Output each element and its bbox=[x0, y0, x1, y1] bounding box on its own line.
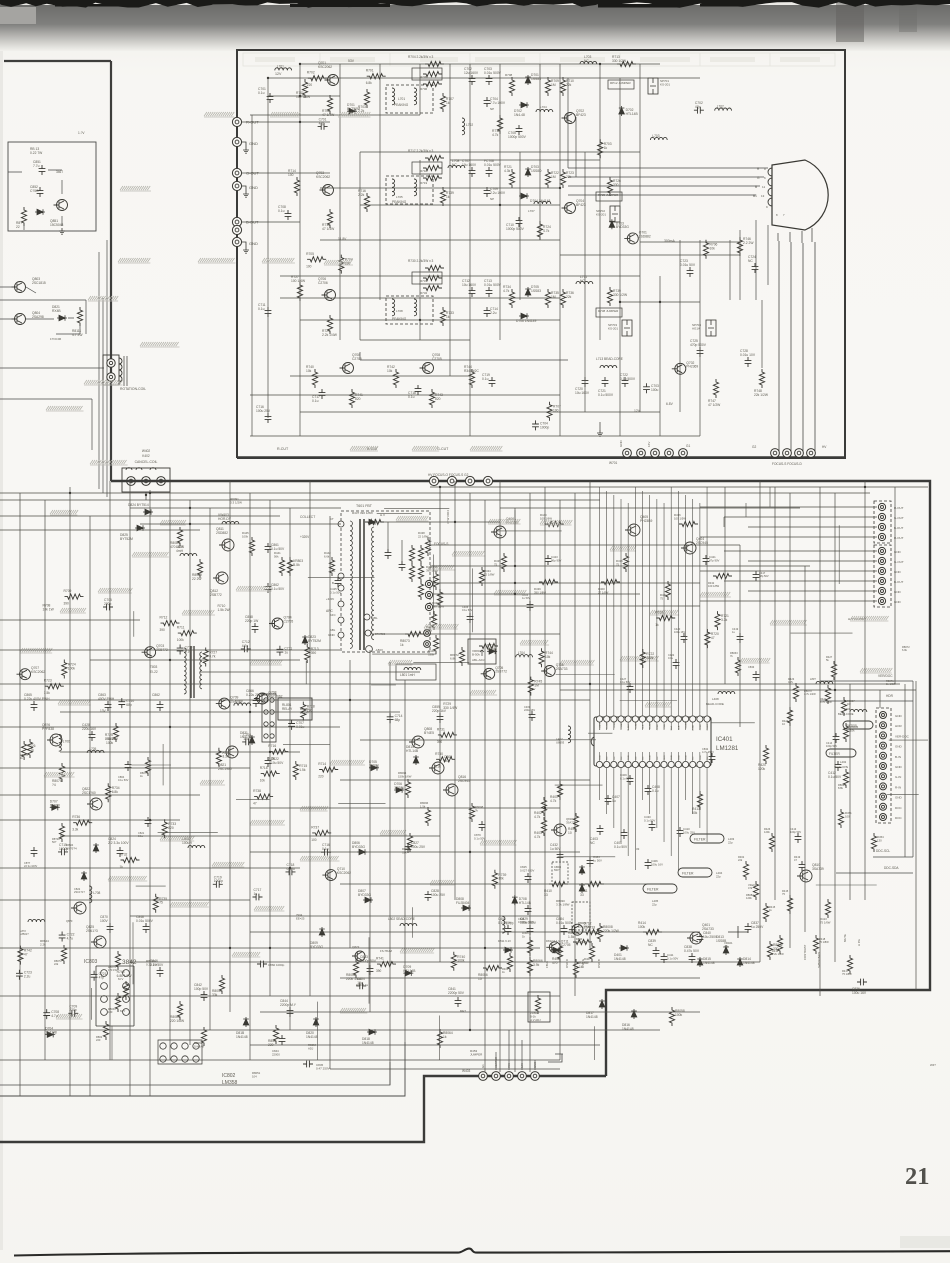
capacitor C710 bbox=[506, 217, 525, 231]
resistor R8042 bbox=[767, 941, 782, 960]
junction bbox=[469, 851, 471, 853]
svg-text:47 1/4W: 47 1/4W bbox=[322, 227, 335, 231]
resistor R744 bbox=[539, 648, 553, 667]
wire bbox=[560, 254, 740, 256]
svg-text:470 1/2W: 470 1/2W bbox=[170, 545, 185, 549]
svg-text:7.7u 100V: 7.7u 100V bbox=[490, 101, 506, 105]
svg-text:ROTATION-COIL: ROTATION-COIL bbox=[120, 387, 146, 391]
transistor Q703 bbox=[142, 644, 168, 658]
capacitor C867 bbox=[24, 847, 38, 868]
hatch mark bbox=[770, 620, 807, 625]
connector TP bbox=[424, 630, 431, 648]
svg-text:21: 21 bbox=[905, 1163, 930, 1190]
capacitor C822 bbox=[265, 757, 284, 767]
wire bbox=[432, 555, 434, 620]
svg-text:B-: B- bbox=[332, 581, 335, 585]
wire bbox=[568, 78, 576, 177]
wire bbox=[656, 499, 658, 716]
svg-text:3.3k: 3.3k bbox=[721, 618, 728, 622]
capacitor C708 bbox=[278, 205, 291, 220]
label OSD R bbox=[565, 959, 569, 968]
svg-text:CLAM: CLAM bbox=[692, 725, 695, 731]
wire bbox=[0, 726, 340, 728]
wire bbox=[290, 375, 470, 377]
svg-text:100k: 100k bbox=[646, 656, 654, 660]
transistor Q811 bbox=[216, 527, 234, 551]
transistor Q803 bbox=[12, 277, 46, 293]
svg-text:HOR: HOR bbox=[895, 724, 903, 728]
capacitor C870 bbox=[100, 915, 113, 933]
capacitor C721 bbox=[91, 971, 107, 981]
label R8030 bbox=[556, 899, 570, 907]
svg-text:1N4148: 1N4148 bbox=[306, 1035, 318, 1039]
label socket pins bbox=[753, 167, 785, 217]
wire bbox=[724, 580, 877, 582]
resistor R8076 bbox=[140, 757, 151, 778]
wire bbox=[250, 435, 700, 437]
transistor Q701 bbox=[318, 61, 339, 86]
wire bbox=[300, 411, 660, 413]
hatch mark bbox=[480, 840, 517, 845]
resistor R8066 bbox=[527, 957, 542, 976]
scan gray band below top edge bbox=[0, 5, 950, 51]
svg-text:0.01u 500V: 0.01u 500V bbox=[484, 283, 502, 287]
transistor Q825 bbox=[86, 925, 106, 948]
label VRa01 bbox=[748, 883, 756, 890]
hatch mark bbox=[160, 520, 186, 525]
svg-text:1M: 1M bbox=[551, 175, 556, 179]
svg-text:CONTRAST: CONTRAST bbox=[803, 944, 807, 960]
svg-text:47p 90V: 47p 90V bbox=[709, 558, 720, 562]
svg-text:RP12 JUMPER: RP12 JUMPER bbox=[610, 81, 632, 85]
hatch mark bbox=[620, 656, 659, 661]
svg-text:22 1/8W: 22 1/8W bbox=[484, 572, 495, 576]
diode D709 bbox=[403, 965, 416, 976]
label FOCUS-S bbox=[434, 542, 448, 546]
transistor Q712 bbox=[569, 922, 595, 936]
transistor Q708 bbox=[340, 353, 362, 374]
resistor R408 bbox=[552, 943, 563, 965]
svg-text:820: 820 bbox=[435, 397, 441, 401]
transistor Q822 bbox=[82, 787, 102, 810]
svg-text:L767: L767 bbox=[528, 209, 535, 213]
hatch mark bbox=[250, 660, 282, 665]
svg-text:1.5k: 1.5k bbox=[44, 691, 50, 695]
svg-text:220: 220 bbox=[96, 1038, 101, 1042]
svg-text:1N4148: 1N4148 bbox=[45, 1031, 57, 1035]
label CONTRAST bbox=[803, 944, 807, 960]
resistor R703 bbox=[358, 89, 370, 113]
svg-text:LM358: LM358 bbox=[222, 1080, 238, 1086]
wire bbox=[268, 95, 340, 97]
wire bbox=[700, 536, 877, 538]
wire bbox=[0, 1059, 560, 1061]
capacitor C717 bbox=[253, 888, 263, 900]
hatch mark bbox=[200, 780, 225, 785]
hatch mark bbox=[330, 760, 365, 765]
svg-text:B: B bbox=[755, 185, 757, 189]
junction bbox=[499, 204, 501, 206]
resistor R8084 bbox=[170, 527, 185, 549]
resistor R732 bbox=[420, 285, 442, 295]
svg-text:HDR: HDR bbox=[886, 694, 894, 698]
filter FL404 bbox=[678, 868, 723, 878]
resistor R422 bbox=[738, 855, 749, 880]
transistor Q405 bbox=[625, 515, 652, 536]
capacitor C725 bbox=[690, 339, 707, 357]
svg-text:0.0056u 630V: 0.0056u 630V bbox=[518, 920, 534, 924]
svg-text:GND: GND bbox=[895, 796, 903, 800]
capacitor CF1 bbox=[385, 522, 392, 559]
diode D813 bbox=[716, 935, 729, 955]
diode D812 bbox=[546, 939, 561, 953]
svg-text:22p: 22p bbox=[652, 902, 657, 906]
resistor R742 bbox=[387, 365, 399, 388]
svg-text:0.01u 500V: 0.01u 500V bbox=[484, 163, 502, 167]
capacitor C884 bbox=[556, 917, 574, 935]
capacitor C708 bbox=[43, 1009, 59, 1019]
wire bbox=[663, 768, 665, 842]
capacitor C710 bbox=[118, 698, 134, 708]
wire bbox=[0, 899, 250, 901]
resistor R8089 bbox=[192, 559, 203, 581]
resistor R802 bbox=[96, 1021, 109, 1042]
svg-text:0.1u: 0.1u bbox=[258, 307, 265, 311]
svg-text:100k: 100k bbox=[68, 666, 76, 670]
resistor R748 bbox=[754, 369, 769, 397]
diode D707 bbox=[50, 799, 60, 810]
resistor R8091 bbox=[230, 497, 242, 505]
hatch mark bbox=[44, 772, 75, 777]
wire bbox=[85, 300, 87, 334]
junction bbox=[149, 492, 151, 494]
resistor R734 bbox=[106, 783, 120, 802]
wire bbox=[320, 187, 560, 189]
label COLLECT bbox=[300, 515, 315, 519]
svg-text:L704: L704 bbox=[540, 105, 547, 109]
svg-text:0.1u: 0.1u bbox=[312, 399, 319, 403]
hatch mark bbox=[396, 516, 428, 521]
flyback pin 5 bbox=[332, 581, 344, 591]
svg-text:100: 100 bbox=[311, 838, 317, 842]
label SVB bbox=[817, 952, 821, 968]
diode D809 bbox=[310, 927, 325, 949]
capacitor C864 bbox=[118, 761, 131, 782]
svg-text:GN: GN bbox=[621, 756, 623, 760]
capacitor C861 bbox=[265, 543, 285, 553]
capacitor C432 bbox=[550, 843, 563, 861]
spark gap SP703 bbox=[608, 320, 632, 336]
hatch mark bbox=[560, 660, 594, 665]
resistor R729 bbox=[322, 315, 338, 337]
svg-text:R711: R711 bbox=[177, 626, 185, 630]
svg-text:IC802: IC802 bbox=[222, 1073, 236, 1079]
svg-text:RX4B: RX4B bbox=[52, 309, 61, 313]
svg-text:R346 #2C: R346 #2C bbox=[464, 369, 479, 373]
wire bbox=[724, 487, 770, 527]
resistor R709 bbox=[64, 589, 84, 606]
hatch mark bbox=[232, 952, 260, 957]
wire bbox=[89, 516, 91, 1096]
hatch mark bbox=[452, 551, 485, 556]
diode D808 bbox=[456, 897, 471, 911]
resistor R702 bbox=[322, 95, 335, 117]
svg-text:220u 16V: 220u 16V bbox=[82, 727, 97, 731]
capacitor C832 bbox=[702, 747, 715, 763]
wire bbox=[250, 931, 700, 933]
capacitor C709 bbox=[68, 1004, 78, 1016]
svg-text:CLA: CLA bbox=[663, 724, 666, 729]
svg-text:12V: 12V bbox=[275, 72, 282, 76]
resistor R440 bbox=[540, 513, 564, 527]
resistor R438 bbox=[418, 531, 431, 556]
wire bbox=[496, 1030, 535, 1070]
svg-text:10k: 10k bbox=[545, 655, 551, 659]
svg-text:L703: L703 bbox=[652, 134, 659, 138]
svg-text:R737: R737 bbox=[311, 825, 319, 829]
svg-text:12u 160V: 12u 160V bbox=[464, 71, 479, 75]
wire bbox=[372, 653, 436, 655]
capacitor C716 bbox=[321, 843, 331, 855]
bottom block inner line2 bbox=[0, 1062, 390, 1085]
wire bbox=[111, 1026, 113, 1061]
svg-text:100p 50V: 100p 50V bbox=[194, 987, 209, 991]
wire bbox=[559, 64, 561, 436]
connector R-OUT bbox=[232, 117, 259, 126]
svg-text:10u 160V: 10u 160V bbox=[462, 283, 477, 287]
connector output group A bbox=[874, 501, 891, 543]
svg-text:15: 15 bbox=[478, 977, 482, 981]
svg-text:10k 1W: 10k 1W bbox=[43, 607, 55, 611]
resistor R8082 bbox=[746, 881, 759, 900]
resistor R405 bbox=[502, 953, 513, 974]
svg-text:2SA733: 2SA733 bbox=[556, 667, 568, 671]
resistor R701 bbox=[296, 79, 311, 99]
resistor R718 bbox=[260, 766, 280, 783]
peaking box L705 bbox=[386, 296, 433, 324]
svg-text:B-OUT: B-OUT bbox=[894, 580, 904, 584]
svg-text:R731: R731 bbox=[437, 727, 445, 731]
junction bbox=[659, 301, 661, 303]
capacitor C879 bbox=[474, 821, 485, 840]
resistor R723 bbox=[560, 169, 574, 188]
svg-text:100 1/8W: 100 1/8W bbox=[708, 584, 720, 588]
hatch mark bbox=[430, 880, 454, 885]
connector W403 group bbox=[462, 1057, 539, 1081]
label IC401 bbox=[716, 736, 739, 752]
resistor R432 bbox=[708, 573, 732, 588]
connector cancel-coil bbox=[122, 468, 170, 500]
transistor Q821 bbox=[218, 746, 238, 771]
svg-text:10k: 10k bbox=[260, 779, 266, 783]
svg-text:1k: 1k bbox=[655, 623, 659, 627]
wire bbox=[0, 947, 540, 949]
left inner box bbox=[8, 142, 96, 231]
svg-text:390: 390 bbox=[160, 628, 166, 632]
wire bbox=[700, 506, 877, 508]
label DDC-SDA bbox=[884, 866, 899, 870]
svg-text:1.5k: 1.5k bbox=[299, 768, 306, 772]
svg-text:2SA298: 2SA298 bbox=[32, 315, 44, 319]
wire bbox=[912, 681, 914, 857]
svg-text:1N4148: 1N4148 bbox=[194, 1044, 204, 1048]
capacitor C404 bbox=[587, 855, 602, 867]
resistor R8037 bbox=[356, 983, 369, 987]
resistor R407 bbox=[584, 943, 595, 964]
svg-text:NC: NC bbox=[584, 59, 589, 63]
svg-text:47p: 47p bbox=[319, 121, 325, 125]
wire bbox=[699, 768, 701, 828]
wire bbox=[280, 275, 640, 277]
svg-text:B-OUT: B-OUT bbox=[894, 526, 904, 530]
svg-text:C860 1000p: C860 1000p bbox=[268, 963, 285, 967]
svg-text:VER-DOC: VER-DOC bbox=[895, 734, 910, 738]
label NP2 bbox=[490, 197, 494, 201]
transistor Q706 bbox=[318, 277, 336, 301]
svg-text:KS-201: KS-201 bbox=[596, 213, 606, 217]
wire bbox=[269, 500, 271, 996]
label APC bbox=[326, 609, 336, 637]
wire bbox=[685, 768, 687, 800]
svg-text:56k: 56k bbox=[274, 554, 279, 558]
diode D806 bbox=[352, 841, 367, 855]
top block bottom border bbox=[237, 456, 845, 459]
svg-text:100uH: 100uH bbox=[182, 841, 192, 845]
junction bbox=[189, 507, 191, 509]
hatch mark bbox=[494, 590, 526, 595]
connector video labels bbox=[895, 714, 910, 820]
svg-text:H PG: H PG bbox=[857, 939, 861, 946]
resistor R8033 bbox=[54, 945, 67, 966]
wire bbox=[0, 619, 140, 621]
svg-text:0.1u 50V: 0.1u 50V bbox=[271, 587, 285, 591]
wire bbox=[759, 481, 761, 962]
junction bbox=[834, 689, 836, 691]
capacitor C703 bbox=[643, 383, 659, 393]
resistor R8048 bbox=[116, 981, 129, 1002]
svg-text:0.47u: 0.47u bbox=[287, 867, 295, 871]
svg-text:CLAMP: CLAMP bbox=[649, 721, 652, 729]
svg-text:0.1u 50V: 0.1u 50V bbox=[644, 818, 655, 822]
svg-text:100: 100 bbox=[108, 1010, 113, 1014]
IC803 outline bbox=[96, 966, 134, 1026]
wire bbox=[368, 937, 370, 1003]
wire bbox=[133, 611, 135, 637]
svg-text:33: 33 bbox=[580, 893, 584, 897]
capacitor C722 bbox=[620, 373, 636, 387]
svg-text:FS-?8UM: FS-?8UM bbox=[380, 949, 393, 953]
resistor R719 bbox=[655, 611, 675, 628]
wire bbox=[656, 768, 658, 828]
svg-text:4.7k: 4.7k bbox=[534, 835, 541, 839]
junction bbox=[439, 486, 441, 488]
label 11OC06 bbox=[50, 337, 62, 341]
resistor R8072 bbox=[450, 647, 465, 666]
resistor R710 bbox=[560, 77, 574, 96]
svg-text:L706: L706 bbox=[63, 739, 70, 743]
svg-text:1k: 1k bbox=[604, 146, 608, 150]
svg-text:22 3u 100V: 22 3u 100V bbox=[24, 864, 38, 868]
svg-text:100: 100 bbox=[845, 814, 850, 818]
wire bbox=[149, 490, 151, 1096]
wire bbox=[379, 64, 381, 300]
resistor R439b bbox=[534, 579, 558, 594]
resistor R8038 bbox=[578, 921, 602, 935]
svg-text:4.7k: 4.7k bbox=[503, 289, 510, 293]
wire bbox=[0, 794, 200, 796]
hatch mark bbox=[88, 296, 118, 301]
svg-text:JUMPER: JUMPER bbox=[470, 1053, 483, 1057]
svg-text:47k: 47k bbox=[724, 944, 729, 948]
svg-text:KSC2062: KSC2062 bbox=[337, 871, 351, 875]
wire bbox=[659, 276, 661, 436]
diode D705 bbox=[369, 760, 379, 771]
wire bbox=[779, 241, 815, 452]
svg-text:T803: T803 bbox=[150, 665, 157, 669]
svg-text:CLAMP: CLAMP bbox=[599, 722, 602, 730]
svg-text:GND: GND bbox=[628, 755, 630, 760]
svg-text:G1: G1 bbox=[481, 1064, 485, 1068]
capacitor C713 bbox=[177, 645, 193, 655]
svg-text:3842: 3842 bbox=[122, 959, 137, 966]
diode D810 bbox=[236, 1017, 249, 1039]
svg-text:R732: R732 bbox=[420, 291, 428, 295]
capacitor C702 bbox=[694, 101, 704, 113]
hatch mark bbox=[300, 806, 328, 811]
svg-text:2200p 50V: 2200p 50V bbox=[448, 991, 465, 995]
svg-text:OSD G: OSD G bbox=[581, 959, 585, 968]
wire bbox=[606, 491, 608, 716]
svg-text:2SA733: 2SA733 bbox=[230, 700, 242, 704]
capacitor C401 bbox=[498, 917, 512, 935]
flyback pin 4 bbox=[332, 569, 344, 579]
svg-text:R701: R701 bbox=[366, 69, 374, 73]
wire bbox=[663, 503, 665, 716]
svg-text:1k: 1k bbox=[443, 1035, 447, 1039]
capacitor C403 bbox=[590, 825, 603, 845]
wire bbox=[375, 633, 560, 635]
hatch mark bbox=[212, 862, 244, 867]
wire bbox=[558, 856, 616, 858]
svg-text:100u 16V: 100u 16V bbox=[852, 991, 867, 995]
wire bbox=[700, 570, 877, 572]
svg-text:390: 390 bbox=[376, 969, 382, 973]
junction bbox=[559, 187, 561, 189]
wire bbox=[819, 487, 821, 996]
resistor R435 bbox=[674, 513, 698, 527]
svg-text:R723: R723 bbox=[44, 679, 52, 683]
svg-text:4.7u: 4.7u bbox=[51, 1014, 58, 1018]
svg-text:16V: 16V bbox=[647, 442, 651, 447]
resistor R714 bbox=[288, 169, 300, 196]
wire bbox=[90, 659, 300, 661]
svg-text:100 1/5W: 100 1/5W bbox=[674, 516, 686, 520]
svg-text:0.1u: 0.1u bbox=[258, 91, 265, 95]
ghost table impression bbox=[243, 53, 835, 66]
diode D701 bbox=[347, 103, 360, 114]
resistor R706 bbox=[420, 81, 442, 91]
svg-text:120k: 120k bbox=[764, 830, 770, 834]
svg-text:1SS81: 1SS81 bbox=[487, 647, 497, 651]
wire bbox=[209, 508, 211, 1030]
svg-text:L704: L704 bbox=[518, 651, 525, 655]
capacitor C844b bbox=[272, 1035, 285, 1056]
svg-text:4.7u 250V: 4.7u 250V bbox=[702, 750, 714, 754]
wire bbox=[791, 632, 853, 634]
wire bbox=[389, 662, 391, 1085]
junction bbox=[589, 683, 591, 685]
resistor R418 bbox=[813, 935, 829, 954]
